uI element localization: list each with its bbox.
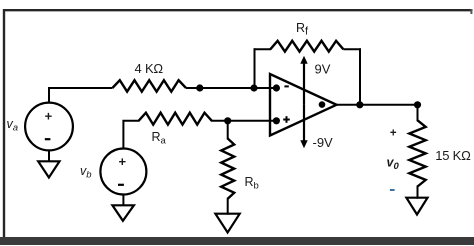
op-amp noninverting input plus sign [283, 119, 290, 121]
resistor 4 KΩ [112, 80, 186, 91]
node dot at op-amp noninverting input [273, 117, 280, 124]
svg-text:+: + [119, 154, 127, 169]
wire Rf right vertical to output [359, 48, 361, 105]
power supply arrow +9V [303, 63, 305, 105]
resistor Rf [270, 41, 343, 52]
voltage source vb [100, 149, 146, 195]
feedback branch: wire up from inverting node [254, 48, 256, 88]
svg-text:9V: 9V [315, 62, 331, 77]
resistor Ra [139, 113, 212, 125]
output wire [337, 104, 418, 106]
ground under 15K [406, 198, 427, 215]
wire Rf left lead [254, 48, 272, 50]
ground under va [38, 161, 59, 177]
frame left border [3, 9, 5, 241]
resistor 15 KΩ [409, 120, 425, 186]
voltage source va [25, 103, 73, 151]
wire output node to 15K [417, 105, 419, 122]
node dot inside op-amp near output [319, 101, 326, 108]
node dot output/load junction [414, 101, 421, 108]
output voltage minus sign [390, 189, 395, 191]
wire va top to 4K resistor [49, 88, 112, 103]
node dot after 4K [196, 84, 203, 91]
svg-text:-9V: -9V [313, 135, 334, 150]
node dot Ra/Rb junction [224, 117, 231, 124]
wire Rb to ground [227, 198, 229, 215]
vb minus sign [118, 184, 124, 186]
wire Ra to noninverting input [211, 120, 276, 122]
wire vb bottom to ground [122, 195, 124, 206]
svg-text:4 KΩ: 4 KΩ [135, 61, 164, 76]
wire vb top to Ra [123, 121, 139, 149]
wire va bottom to ground [48, 150, 50, 161]
node dot output/Rf junction [356, 101, 363, 108]
op-amp inverting input minus sign [284, 85, 288, 87]
wire 4K to node [186, 87, 200, 89]
frame bottom bar [0, 237, 474, 245]
wire node to inverting input [200, 87, 277, 89]
node dot at op-amp inverting input [273, 84, 280, 91]
svg-text:15 KΩ: 15 KΩ [435, 148, 471, 163]
va minus sign [45, 138, 51, 140]
ground under Rb [215, 214, 239, 233]
node dot Rf tap [250, 84, 257, 91]
wire Rf right lead [343, 48, 361, 50]
op-amp U1 triangle [270, 74, 337, 136]
svg-text:+: + [45, 109, 53, 124]
svg-text:+: + [390, 128, 397, 140]
wire junction to Rb [227, 121, 229, 140]
frame right border stub [470, 9, 472, 14]
wire 15K to ground [417, 186, 419, 199]
resistor Rb [221, 139, 234, 199]
frame top border [3, 9, 473, 11]
power supply arrow -9V [303, 105, 305, 141]
ground under vb [112, 205, 133, 221]
